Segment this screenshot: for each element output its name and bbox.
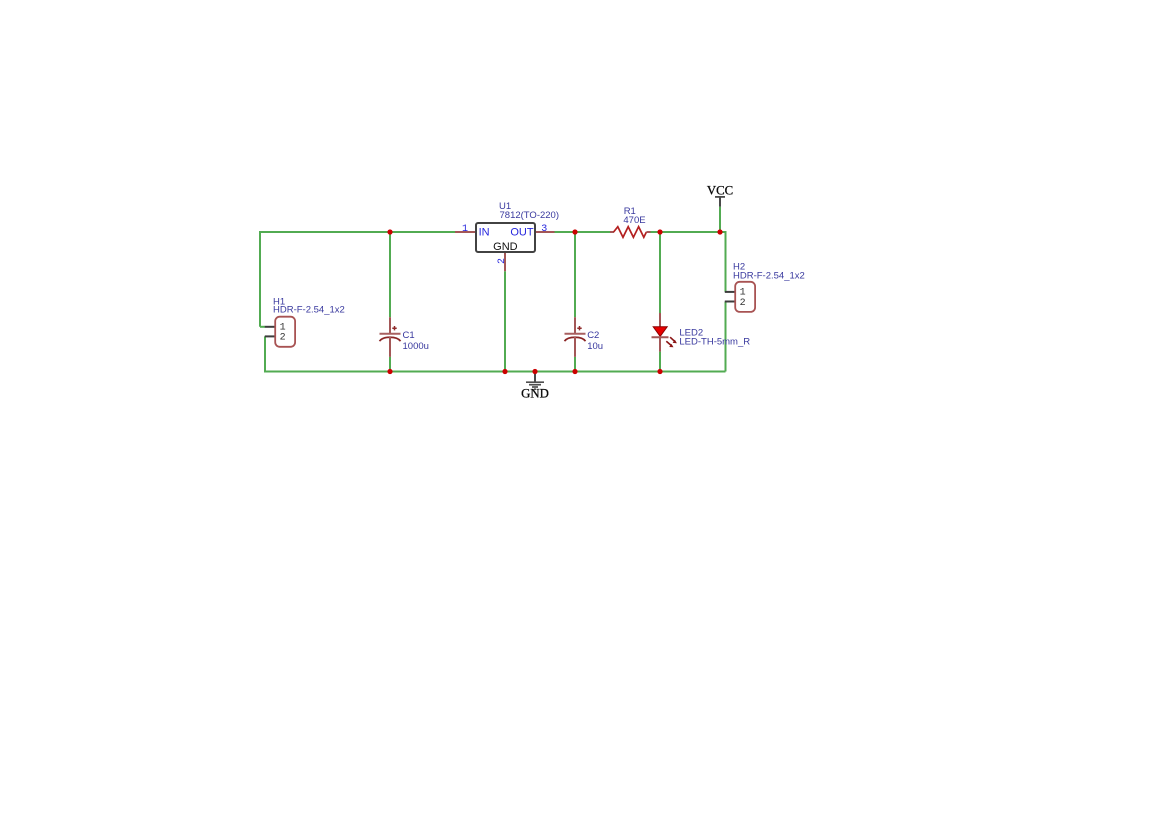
junction: LED ground node	[657, 369, 662, 374]
ground symbol GND	[526, 372, 544, 390]
svg-text:2: 2	[280, 333, 286, 344]
svg-text:C2: C2	[587, 330, 599, 341]
svg-text:LED-TH-5mm_R: LED-TH-5mm_R	[679, 337, 750, 348]
wire: VCC stem green	[719, 207, 721, 232]
svg-text:3: 3	[541, 224, 547, 235]
svg-text:IN: IN	[479, 227, 490, 239]
capacitor C1	[380, 317, 401, 357]
wire: output net (U1.OUT to R1 left)	[555, 231, 611, 233]
svg-text:VCC: VCC	[707, 184, 733, 198]
wire: C1 bottom vertical	[389, 357, 391, 372]
junction: C2 ground node	[572, 369, 577, 374]
header H1	[265, 317, 295, 347]
wire: U1 GND pin down	[504, 271, 506, 371]
junction: R1/LED node	[657, 229, 662, 234]
power symbol VCC	[715, 197, 725, 207]
voltage regulator U1	[455, 223, 555, 271]
LED LED2	[652, 313, 677, 352]
wire: LED2 bottom vertical	[659, 352, 661, 372]
junction: C2 top node	[572, 229, 577, 234]
svg-text:HDR-F-2.54_1x2: HDR-F-2.54_1x2	[273, 305, 345, 316]
junction: GND symbol node	[532, 369, 537, 374]
svg-text:7812(TO-220): 7812(TO-220)	[500, 210, 560, 221]
header H2	[725, 282, 755, 312]
svg-text:10u: 10u	[587, 341, 603, 352]
junction: C1 ground node	[387, 369, 392, 374]
svg-text:GND: GND	[493, 241, 518, 253]
wire: output net (R1 right to VCC corner, down to H2.1)	[651, 232, 726, 292]
capacitor C2	[565, 317, 586, 357]
wire: H1 pin2 down to ground rail	[265, 336, 726, 371]
wire: C2 bottom vertical	[574, 357, 576, 372]
svg-text:GND: GND	[521, 387, 549, 401]
wire: LED2 top vertical	[659, 232, 661, 313]
svg-text:1: 1	[462, 224, 468, 235]
svg-text:2: 2	[497, 258, 508, 264]
wire: H2 pin2 down to ground rail	[725, 302, 727, 372]
junction: VCC node	[717, 229, 722, 234]
junction: U1 ground node	[502, 369, 507, 374]
svg-text:OUT: OUT	[510, 227, 534, 239]
svg-text:HDR-F-2.54_1x2: HDR-F-2.54_1x2	[733, 271, 805, 282]
svg-text:1000u: 1000u	[403, 341, 429, 352]
wire: C2 top vertical	[574, 232, 576, 317]
svg-text:C1: C1	[403, 330, 415, 341]
svg-text:2: 2	[740, 298, 746, 309]
wire: input net top horizontal (H1.1 to U1.IN)	[260, 232, 455, 327]
svg-text:470E: 470E	[623, 215, 645, 226]
wire: C1 top vertical	[389, 232, 391, 317]
wire: H1 pin1 corner stub	[260, 326, 265, 328]
resistor R1	[610, 227, 651, 238]
junction: C1 top node	[387, 229, 392, 234]
